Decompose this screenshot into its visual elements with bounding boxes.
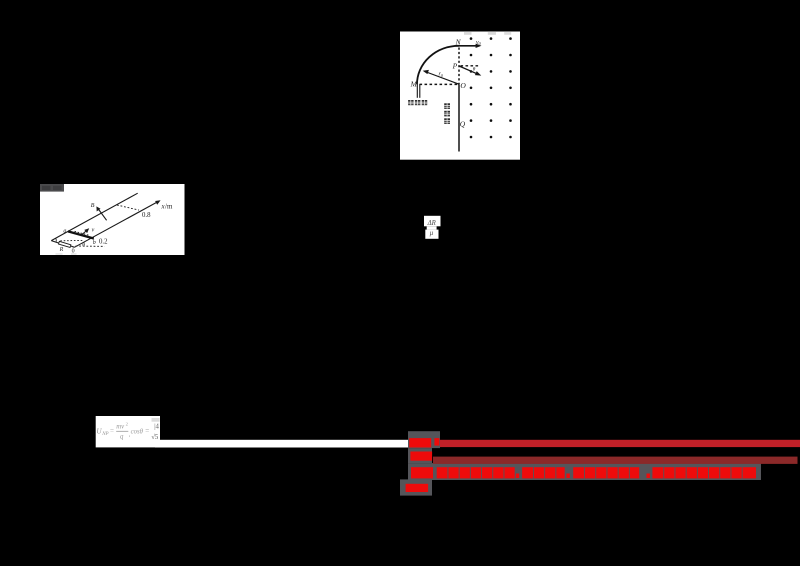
svg-text:B: B [91, 203, 95, 209]
svg-text:N: N [455, 38, 462, 47]
svg-text:μ: μ [430, 230, 434, 237]
angle mark at left vertex [55, 238, 58, 242]
dotted horizontal inside plane [60, 239, 82, 241]
faint clipped dot smudge 1 [464, 32, 472, 35]
svg-text:ΔR: ΔR [427, 220, 437, 227]
white bar to the right [155, 440, 408, 448]
svg-text:mv: mv [116, 423, 125, 430]
wire resistor to origin [71, 246, 75, 247]
line3 comma 2 [566, 474, 569, 479]
left vertex edge up to a [51, 231, 68, 240]
upper rail [68, 193, 138, 231]
line4 red label text [406, 484, 429, 492]
svg-text:b: b [93, 240, 96, 246]
panel background [400, 32, 520, 160]
svg-text:cosθ: cosθ [131, 429, 144, 436]
line1 long red bar [440, 440, 800, 447]
svg-text:θ: θ [473, 67, 476, 73]
ion source double line [416, 84, 418, 98]
faint bottom marks [56, 253, 63, 255]
faint clipped dot smudge 3 [504, 32, 511, 35]
fraction middle bridge [427, 226, 437, 229]
panel background [40, 184, 185, 255]
faint clipped dot smudge 2 [488, 32, 496, 35]
line3 red text group A [411, 467, 433, 478]
v0 arrow at N [459, 44, 482, 48]
svg-text:0.2: 0.2 [99, 238, 108, 245]
svg-text:Q: Q [460, 120, 466, 129]
svg-text:0.8: 0.8 [142, 212, 151, 219]
detector board line below O [458, 84, 460, 151]
trajectory arc M to N [417, 46, 459, 85]
svg-text:a: a [63, 228, 66, 234]
line1 red label text [409, 438, 431, 447]
line3 thin char gaps [448, 467, 743, 478]
svg-text:|4: |4 [154, 424, 159, 431]
rod ab (thick) [68, 231, 94, 238]
svg-text:NP: NP [101, 432, 108, 437]
gray highlight line2 column [408, 448, 432, 463]
line2 maroon bar [433, 457, 798, 464]
dotted line N to O [458, 48, 460, 85]
dashed line M to O [420, 83, 459, 85]
line2 red label text [410, 452, 432, 461]
line3 red text group D [573, 467, 639, 478]
gray highlight line3 band [408, 463, 761, 480]
svg-text:/m: /m [165, 203, 173, 211]
bottom edge with resistor R [51, 241, 58, 243]
svg-text:√5: √5 [151, 433, 159, 441]
line3 red text group B [437, 467, 515, 478]
dashed tick at 0.8 [117, 205, 139, 210]
theta dashed horizontal at origin [76, 245, 105, 247]
v arrow on rod [82, 228, 89, 234]
B field arrow [96, 206, 106, 220]
lower rail / x axis with arrow [74, 200, 160, 247]
dashed horizontal from P [461, 65, 480, 67]
formula background [96, 416, 160, 447]
svg-text:=: = [145, 427, 149, 435]
svg-text:O: O [460, 81, 466, 90]
r0 radius arrow from O to arc [423, 70, 460, 84]
line3 red text group E [652, 467, 756, 478]
ion source label (CJK glyph blocks) [408, 100, 427, 105]
svg-text:=: = [110, 427, 114, 435]
formula faint top-right patch [152, 418, 160, 422]
line3 comma 3 [647, 474, 650, 479]
svg-text:q: q [120, 434, 124, 441]
svg-text:θ: θ [82, 242, 85, 248]
line3 red text group C [522, 467, 565, 478]
gray highlight line4 box [400, 479, 432, 495]
svg-text:P: P [452, 62, 458, 71]
dashed rod position above [75, 231, 89, 235]
svg-text:R: R [59, 247, 64, 253]
gray highlight line1 [408, 431, 440, 448]
resistor R body [59, 241, 71, 247]
gray label box (blurred caption) [40, 184, 64, 192]
svg-text:M: M [410, 80, 418, 89]
magnetic field dot grid [470, 37, 512, 138]
detector board label (vertical CJK glyph blocks) [444, 103, 450, 124]
velocity arrow at P (angle theta) [459, 66, 481, 76]
line3 comma 1 [516, 474, 519, 479]
fraction denominator box [425, 230, 438, 239]
line1 red small char [434, 438, 439, 446]
svg-text:v: v [92, 227, 95, 233]
fraction numerator box [424, 216, 441, 227]
